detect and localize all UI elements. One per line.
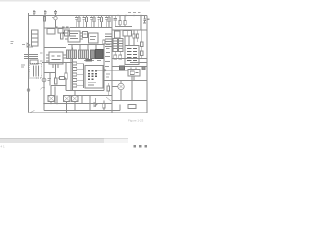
transformer T2 winding c dark [91,50,95,59]
diode D1 [27,43,33,47]
resistor R9 [58,29,63,34]
capacitor C2 [44,10,47,16]
U4 internal [127,49,137,61]
toolbar icon 1 [134,145,137,148]
U1 left pin components [73,62,77,65]
ladder connector J4 [119,39,124,52]
wire y95.5 [66,95,112,97]
wire ladder drops [115,52,121,60]
wire x83.5 [83,64,85,89]
ground merge mark [30,110,35,112]
capacitor CS1 [75,16,77,28]
connector J2 [123,31,132,37]
transistor Q3 [118,83,124,89]
resistor R29 [119,55,122,59]
RC snubber row [75,16,110,28]
resistor R8 [61,33,63,39]
label marks [106,74,110,77]
U2 pins [65,33,83,39]
box row x47 [47,29,55,35]
label row under band [84,60,101,62]
node label text [22,44,25,46]
capacitor C3 [54,10,57,16]
toolbar icon 3 [145,145,148,148]
labels above bus [128,12,141,14]
wire y62.5 [42,62,73,64]
opto U3 [72,96,79,102]
wire y103.5 [44,103,112,105]
resistor R22 [141,42,143,47]
pin stubs left [105,34,112,47]
wire y27.5 [70,27,112,29]
top right junction dots [117,15,141,16]
wire y26.5 [115,26,132,28]
resistor RS3 [93,16,95,18]
wire y44.5 [68,44,104,46]
bus junction dots left [43,15,56,16]
resistor R20 [119,16,121,21]
wire y72.5 [44,72,56,74]
bridge leads [46,55,66,68]
diagonal mark [106,97,111,101]
wire y58.5 [112,58,147,60]
resistor RS2 [86,16,88,18]
resistor R23 [141,51,143,56]
wire x120 stub [119,105,121,111]
wire mid rail x44 [43,16,45,111]
svg-text:Figure 1-23: Figure 1-23 [128,119,144,123]
resistor R6 horizontal [60,77,65,80]
bridge rectifier BR1 [49,52,63,64]
svg-text:4 1: 4 1 [1,145,6,149]
wire x75 [74,91,76,111]
node A circle [27,89,30,92]
wire arc curl [41,87,46,89]
wire x112 [111,16,113,114]
choke L1 [24,55,38,59]
wire x71 [70,59,72,91]
resistor R7 [65,73,67,79]
wire x141 [140,16,142,31]
U1 internal marks [88,70,97,80]
resistor RS5 [108,16,110,18]
labels x106 col [106,45,110,53]
labels right of U1 [105,57,110,67]
transformer T2 core dark [96,50,104,59]
IC U4 [125,46,139,65]
wire y90.5 [66,90,104,92]
dark box K4 [142,67,145,70]
label T1 [21,65,25,67]
transformer T1 windings [34,66,39,77]
top window edge band [0,0,150,2]
transformer T1 dashed box [30,64,42,79]
pin stubs into U1 [77,64,84,86]
capacitor CS4 [98,16,100,28]
wire left rail [28,13,30,113]
capacitor C10 [143,16,146,24]
label Q1 [48,79,52,81]
ladder connector J3 [113,39,118,52]
resistor R2 [30,60,38,64]
resistor RS1 [78,16,80,18]
resistor R5 [55,78,58,84]
wire x90 [89,96,91,111]
wire x132 [131,76,133,101]
margin label [11,42,14,44]
edge mark [148,18,150,20]
wire q3 leads [112,81,121,101]
wire right rail [146,16,148,114]
bridge internal marks [52,56,61,60]
dark box K3 [120,66,125,70]
resistor R16 [103,40,105,44]
scrollbar thumb [0,138,104,143]
U2 internal [70,34,78,39]
wire J2 drops [125,36,129,46]
diode D8 [94,98,97,107]
box U5 [128,70,140,77]
resistor R30 [103,104,105,109]
small rect bottom right [128,105,136,109]
wire x72.5 [72,48,74,91]
wire x55 drop [55,20,57,28]
wire x50 seg [49,73,51,86]
wire y80.5 [104,80,147,82]
wire y47.5 [44,47,66,49]
resistor R21 [124,16,126,21]
junction dot x44 [43,103,45,105]
wire y70.3 [95,69,128,71]
capacitor C9 [114,16,118,27]
wire x82 stub [81,96,83,104]
wire x104 [103,45,105,91]
wire y66.5 right [112,66,147,68]
scrollbar track light [0,138,128,143]
U1 inner small marks [88,83,96,85]
wire y30 [112,29,147,31]
wire x55 lower [55,64,57,78]
transformer T2 winding a [67,50,77,59]
junction dot x57 [56,103,58,105]
wire x66 to bus [66,102,68,113]
capacitor CS2 [83,16,85,28]
wire y100.5 [112,100,147,102]
dark blob [62,32,64,34]
junction dot x51 [50,103,51,104]
resistor R27 [137,34,139,38]
opto X2 [64,96,71,102]
capacitor C1 [33,10,36,16]
transistor Q1 [42,78,46,82]
box K0 [65,30,70,36]
filter box FL1 [32,30,39,46]
wire drops to transformer [72,45,96,51]
fuse F1 [43,17,45,22]
wire x51 [50,86,52,104]
small box K2 [89,33,99,43]
resistor R25 [107,86,109,91]
wire top bus [29,15,148,17]
IC U1 box [85,66,103,89]
transformer T2 winding b [79,50,89,59]
wire y28 [44,27,70,29]
connector J1 [115,31,121,38]
capacitor CS3 [90,16,92,28]
opto box X1 [48,96,55,102]
small box K1 [83,32,88,38]
wire y62.5 right [130,62,147,64]
capacitor CS5 [105,16,107,28]
toolbar icon 2 [139,145,142,148]
filter ticks [32,34,39,42]
resistor RS4 [101,16,103,18]
varistor RV1 [54,17,57,20]
resistor R28 [114,55,117,59]
label blob dark [86,59,93,62]
resistor R26 [133,34,135,38]
IC U2 [68,31,80,42]
diode D5 [103,69,107,73]
inline marks y28 [55,26,69,28]
wire bottom bus [29,112,148,114]
rail label ticks [40,53,43,61]
wire x55-57 pair [55,87,57,104]
wire bottom bus 2 [44,109,120,111]
wire y85.5 [51,85,66,87]
